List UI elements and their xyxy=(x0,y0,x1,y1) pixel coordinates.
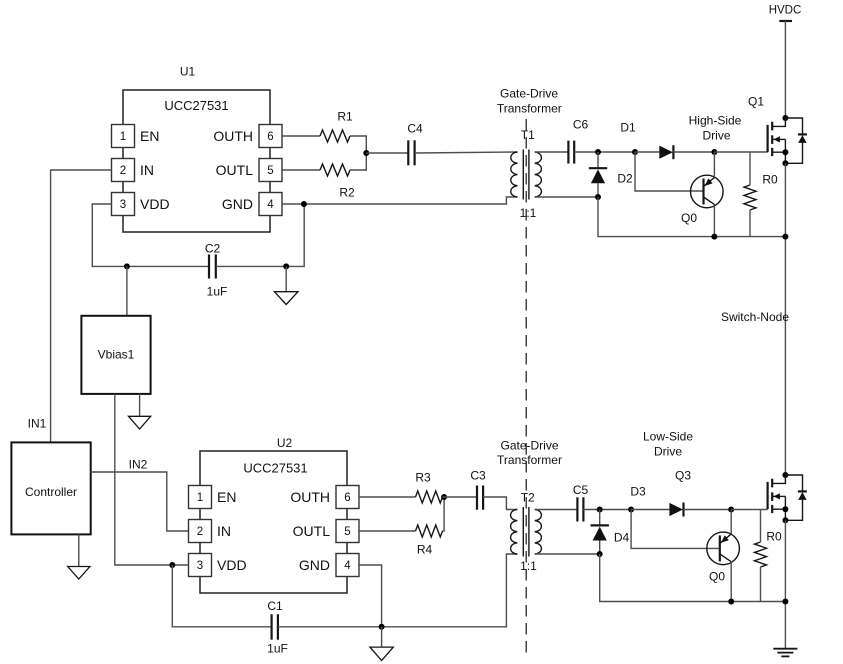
svg-text:R2: R2 xyxy=(339,186,355,200)
svg-text:GND: GND xyxy=(222,196,253,212)
wire node to D3 xyxy=(631,509,669,511)
wire Vbias1 output to U2 VDD xyxy=(115,394,173,565)
svg-text:Transformer: Transformer xyxy=(497,453,562,467)
wire Q0 low base riser xyxy=(631,510,720,549)
svg-text:4: 4 xyxy=(344,560,351,572)
svg-text:R0: R0 xyxy=(762,173,778,187)
node R1 R2 junction xyxy=(363,150,369,156)
ground under Controller xyxy=(68,534,90,579)
U2 pin labels OUTH OUTL GND xyxy=(290,489,330,573)
U2 pin 6 box xyxy=(336,486,359,509)
svg-text:IN: IN xyxy=(140,162,154,178)
svg-text:2: 2 xyxy=(197,526,203,538)
svg-text:D3: D3 xyxy=(630,485,646,499)
transformer T2 primary winding xyxy=(511,510,518,555)
node gate drive junction low-side xyxy=(728,507,734,513)
wire U1 pin4 GND to T1 primary bottom xyxy=(282,197,518,204)
svg-text:T2: T2 xyxy=(521,491,535,505)
U2 pin labels EN IN VDD xyxy=(217,489,247,573)
svg-text:IN2: IN2 xyxy=(129,458,148,472)
resistor R3 xyxy=(416,491,443,503)
Controller block xyxy=(11,442,90,534)
wire U1 pin6 to R1 xyxy=(282,135,320,137)
U1 pin 3 box xyxy=(112,193,135,216)
svg-text:Q1: Q1 xyxy=(748,95,764,109)
node R3 R4 junction xyxy=(441,494,447,500)
U2 pin 2 box xyxy=(189,520,212,543)
svg-text:OUTL: OUTL xyxy=(293,523,331,539)
transistor Q1 MOSFET xyxy=(768,115,789,163)
svg-text:Switch-Node: Switch-Node xyxy=(721,310,789,324)
svg-text:Low-Side: Low-Side xyxy=(643,430,693,444)
node high-side return on rail xyxy=(782,234,788,240)
wire U2 pin4 GND to C1 net xyxy=(359,565,382,627)
capacitor C6 xyxy=(568,141,574,164)
resistor R0 low-side xyxy=(755,510,767,602)
Q0 emitter diagonal with arrow xyxy=(704,177,715,186)
svg-text:R0: R0 xyxy=(766,530,782,544)
svg-text:C4: C4 xyxy=(407,122,423,136)
wire Q3 source to ground xyxy=(784,520,786,648)
svg-text:Vbias1: Vbias1 xyxy=(98,348,135,362)
wire IN2 net from Controller to U2 pin2 xyxy=(91,472,189,531)
wire VDD node down to C1 xyxy=(172,565,271,627)
svg-text:UCC27531: UCC27531 xyxy=(164,98,228,113)
svg-text:R4: R4 xyxy=(417,543,433,557)
isolation barrier dashed line xyxy=(525,119,527,657)
transformer T1 primary winding xyxy=(511,152,518,197)
svg-text:IN1: IN1 xyxy=(28,417,47,431)
wire T1 secondary top to C6 xyxy=(535,151,569,153)
Gate-Drive Transformer label T1 xyxy=(497,87,562,116)
U1 pin 1 box xyxy=(112,125,135,148)
wire U1 VDD pin3 to C2 xyxy=(92,204,209,266)
resistor R1 xyxy=(320,130,350,142)
svg-text:D2: D2 xyxy=(617,172,633,186)
svg-text:6: 6 xyxy=(267,131,273,143)
transistor Q0 high-side circle xyxy=(691,175,724,208)
svg-text:R3: R3 xyxy=(415,471,431,485)
U1 pin labels EN IN VDD xyxy=(140,128,170,212)
svg-text:D1: D1 xyxy=(620,121,636,135)
node D1 anode branch xyxy=(632,149,638,155)
svg-text:3: 3 xyxy=(197,560,203,572)
svg-text:1: 1 xyxy=(120,131,126,143)
svg-text:Drive: Drive xyxy=(702,129,730,143)
Low-Side Drive label xyxy=(643,430,693,459)
capacitor C1 xyxy=(272,614,278,639)
Vbias1 source block xyxy=(81,316,150,394)
wire C5 to D4 node xyxy=(583,509,631,511)
wire Q0 low collector to bottom rail xyxy=(730,562,732,602)
U1 pin 4 box xyxy=(259,193,282,216)
wire C4 to T1 primary xyxy=(415,152,518,153)
diode D4 xyxy=(591,510,609,555)
svg-text:High-Side: High-Side xyxy=(689,114,742,128)
High-Side Drive label xyxy=(689,114,742,143)
U2 pin 3 box xyxy=(189,554,212,577)
svg-text:OUTH: OUTH xyxy=(290,489,330,505)
wire Q0 base riser xyxy=(635,152,704,191)
U1 pin labels OUTH OUTL GND xyxy=(213,128,253,212)
resistor R2 xyxy=(320,164,350,176)
node D3 anode branch xyxy=(628,507,634,513)
wire D3 to gate node xyxy=(684,509,732,511)
wire HVDC rail to Q1 drain xyxy=(784,21,786,118)
wire IN1 net from U1 pin2 to Controller xyxy=(51,170,112,442)
diode D3 xyxy=(669,503,683,517)
svg-text:OUTL: OUTL xyxy=(216,162,254,178)
wire junction to C3 xyxy=(443,496,478,498)
svg-text:1:1: 1:1 xyxy=(520,206,537,220)
wire D1 to gate node xyxy=(673,151,714,153)
svg-text:1: 1 xyxy=(197,492,203,504)
svg-text:D4: D4 xyxy=(614,531,630,545)
Q0 low emitter diagonal with arrow xyxy=(720,534,731,543)
Gate-Drive Transformer label T2 xyxy=(497,439,562,468)
svg-text:6: 6 xyxy=(344,492,350,504)
wire U1 pin5 to R2 xyxy=(282,169,320,171)
wire Q0 collector to bottom rail xyxy=(713,205,715,237)
HVDC terminal bar xyxy=(779,20,792,22)
resistor R0 high-side xyxy=(744,152,756,237)
diode D2 xyxy=(589,152,607,197)
wire T2 secondary top to C5 xyxy=(535,509,578,511)
op-amp U1 body xyxy=(123,90,270,232)
node D2 top xyxy=(595,149,601,155)
svg-text:5: 5 xyxy=(344,526,350,538)
node D2 bottom xyxy=(595,194,601,200)
svg-text:3: 3 xyxy=(120,199,126,211)
wire R1 to junction xyxy=(350,136,366,153)
U2 pin 5 box xyxy=(336,520,359,543)
svg-text:1uF: 1uF xyxy=(207,285,228,299)
Q0 low base bar xyxy=(719,535,721,561)
op-amp U2 body xyxy=(200,451,347,593)
wire T1 secondary bottom xyxy=(535,196,598,198)
node D4 top xyxy=(597,507,603,513)
node D4 bottom xyxy=(597,551,603,557)
svg-text:Q3: Q3 xyxy=(675,469,691,483)
wire C3 to T2 primary top xyxy=(483,497,517,510)
transformer T1 core xyxy=(523,150,529,200)
Q0 collector diagonal xyxy=(704,197,715,205)
wire junction to C4 xyxy=(366,152,408,154)
svg-text:2: 2 xyxy=(120,165,126,177)
svg-text:C1: C1 xyxy=(267,599,283,613)
svg-text:VDD: VDD xyxy=(217,557,247,573)
svg-text:Gate-Drive: Gate-Drive xyxy=(500,87,558,101)
svg-text:IN: IN xyxy=(217,523,231,539)
node GND junction on C1 wire xyxy=(379,624,385,630)
Q3 body diode xyxy=(782,475,807,523)
wire Vbias1 feed xyxy=(126,266,128,315)
ground under C2 xyxy=(274,266,298,304)
transistor Q3 MOSFET xyxy=(768,472,789,520)
wire U2 VDD pin3 xyxy=(172,564,188,566)
U2 pin 4 box xyxy=(336,554,359,577)
wire Q0 low emitter to gate wire xyxy=(730,510,732,535)
wire secondary bottom to low-side common rail xyxy=(600,554,786,602)
svg-text:C3: C3 xyxy=(470,469,486,483)
svg-text:Q0: Q0 xyxy=(681,211,697,225)
transistor Q0 low-side circle xyxy=(707,532,740,565)
node Vbias tap on C2 wire xyxy=(124,263,130,269)
svg-text:OUTH: OUTH xyxy=(213,128,253,144)
svg-text:UCC27531: UCC27531 xyxy=(243,461,307,476)
svg-text:GND: GND xyxy=(299,557,330,573)
node ground tap on C2 wire xyxy=(283,263,289,269)
svg-text:1uF: 1uF xyxy=(267,642,288,656)
node low-side return on rail xyxy=(782,599,788,605)
wire C6 to D2 node xyxy=(574,151,635,153)
wire node to D1 xyxy=(635,151,659,153)
wire U2 pin5 to R4 xyxy=(359,530,416,532)
Q1 body diode xyxy=(782,118,807,166)
wire gate node to Q1 gate xyxy=(714,151,767,153)
svg-text:Drive: Drive xyxy=(654,445,682,459)
ground under C1 xyxy=(370,627,393,661)
svg-text:C5: C5 xyxy=(573,483,589,497)
wire C1 to T2 primary return xyxy=(278,554,517,627)
transformer T2 secondary winding xyxy=(535,510,542,555)
node Q0 bottom xyxy=(711,234,717,240)
svg-text:HVDC: HVDC xyxy=(769,5,802,17)
U1 pin 5 box xyxy=(259,159,282,182)
transformer T1 secondary winding xyxy=(535,152,542,197)
svg-text:T1: T1 xyxy=(521,128,535,142)
svg-text:C6: C6 xyxy=(573,118,589,132)
node Q0 low bottom xyxy=(728,599,734,605)
Q0 base bar xyxy=(702,179,704,205)
transformer T2 core xyxy=(523,507,529,557)
wire gate node to Q3 gate xyxy=(731,509,767,511)
svg-text:EN: EN xyxy=(140,128,159,144)
svg-text:Controller: Controller xyxy=(25,485,77,499)
svg-text:Q0: Q0 xyxy=(709,570,725,584)
capacitor C5 xyxy=(577,497,583,521)
U2 pin 1 box xyxy=(189,486,212,509)
wire Q0 emitter to gate wire xyxy=(713,152,715,177)
svg-text:U2: U2 xyxy=(277,436,293,450)
node gate drive junction xyxy=(711,149,717,155)
earth ground at bottom xyxy=(773,649,797,657)
wire secondary bottom to high-side common rail xyxy=(598,197,785,237)
svg-text:U1: U1 xyxy=(180,65,196,79)
wire T2 secondary bottom xyxy=(535,553,600,555)
node VDD junction U2 xyxy=(169,562,175,568)
svg-text:Transformer: Transformer xyxy=(497,102,562,116)
svg-text:C2: C2 xyxy=(205,242,221,256)
wire R4 riser to R3 junction xyxy=(443,497,445,531)
wire U2 pin6 to R3 xyxy=(359,496,416,498)
Q0 low collector diagonal xyxy=(720,554,731,562)
svg-text:VDD: VDD xyxy=(140,196,170,212)
svg-text:4: 4 xyxy=(267,199,274,211)
capacitor C3 xyxy=(477,486,483,510)
svg-text:1:1: 1:1 xyxy=(520,559,537,573)
diode D1 xyxy=(659,145,673,159)
U1 pin 2 box xyxy=(112,159,135,182)
svg-text:R1: R1 xyxy=(337,110,353,124)
resistor R4 xyxy=(416,525,443,537)
wire Q1 source to switch node rail xyxy=(784,163,786,475)
U1 pin 6 box xyxy=(259,125,282,148)
node pin4 C2 tap xyxy=(301,201,307,207)
wire C2 right to GND pin4 riser xyxy=(216,204,304,266)
ground under Vbias1 xyxy=(129,394,151,429)
svg-text:5: 5 xyxy=(267,165,273,177)
svg-text:EN: EN xyxy=(217,489,236,505)
capacitor C2 xyxy=(209,255,216,279)
wire R2 to junction xyxy=(350,153,366,170)
svg-text:Gate-Drive: Gate-Drive xyxy=(500,439,558,453)
capacitor C4 xyxy=(408,140,414,165)
